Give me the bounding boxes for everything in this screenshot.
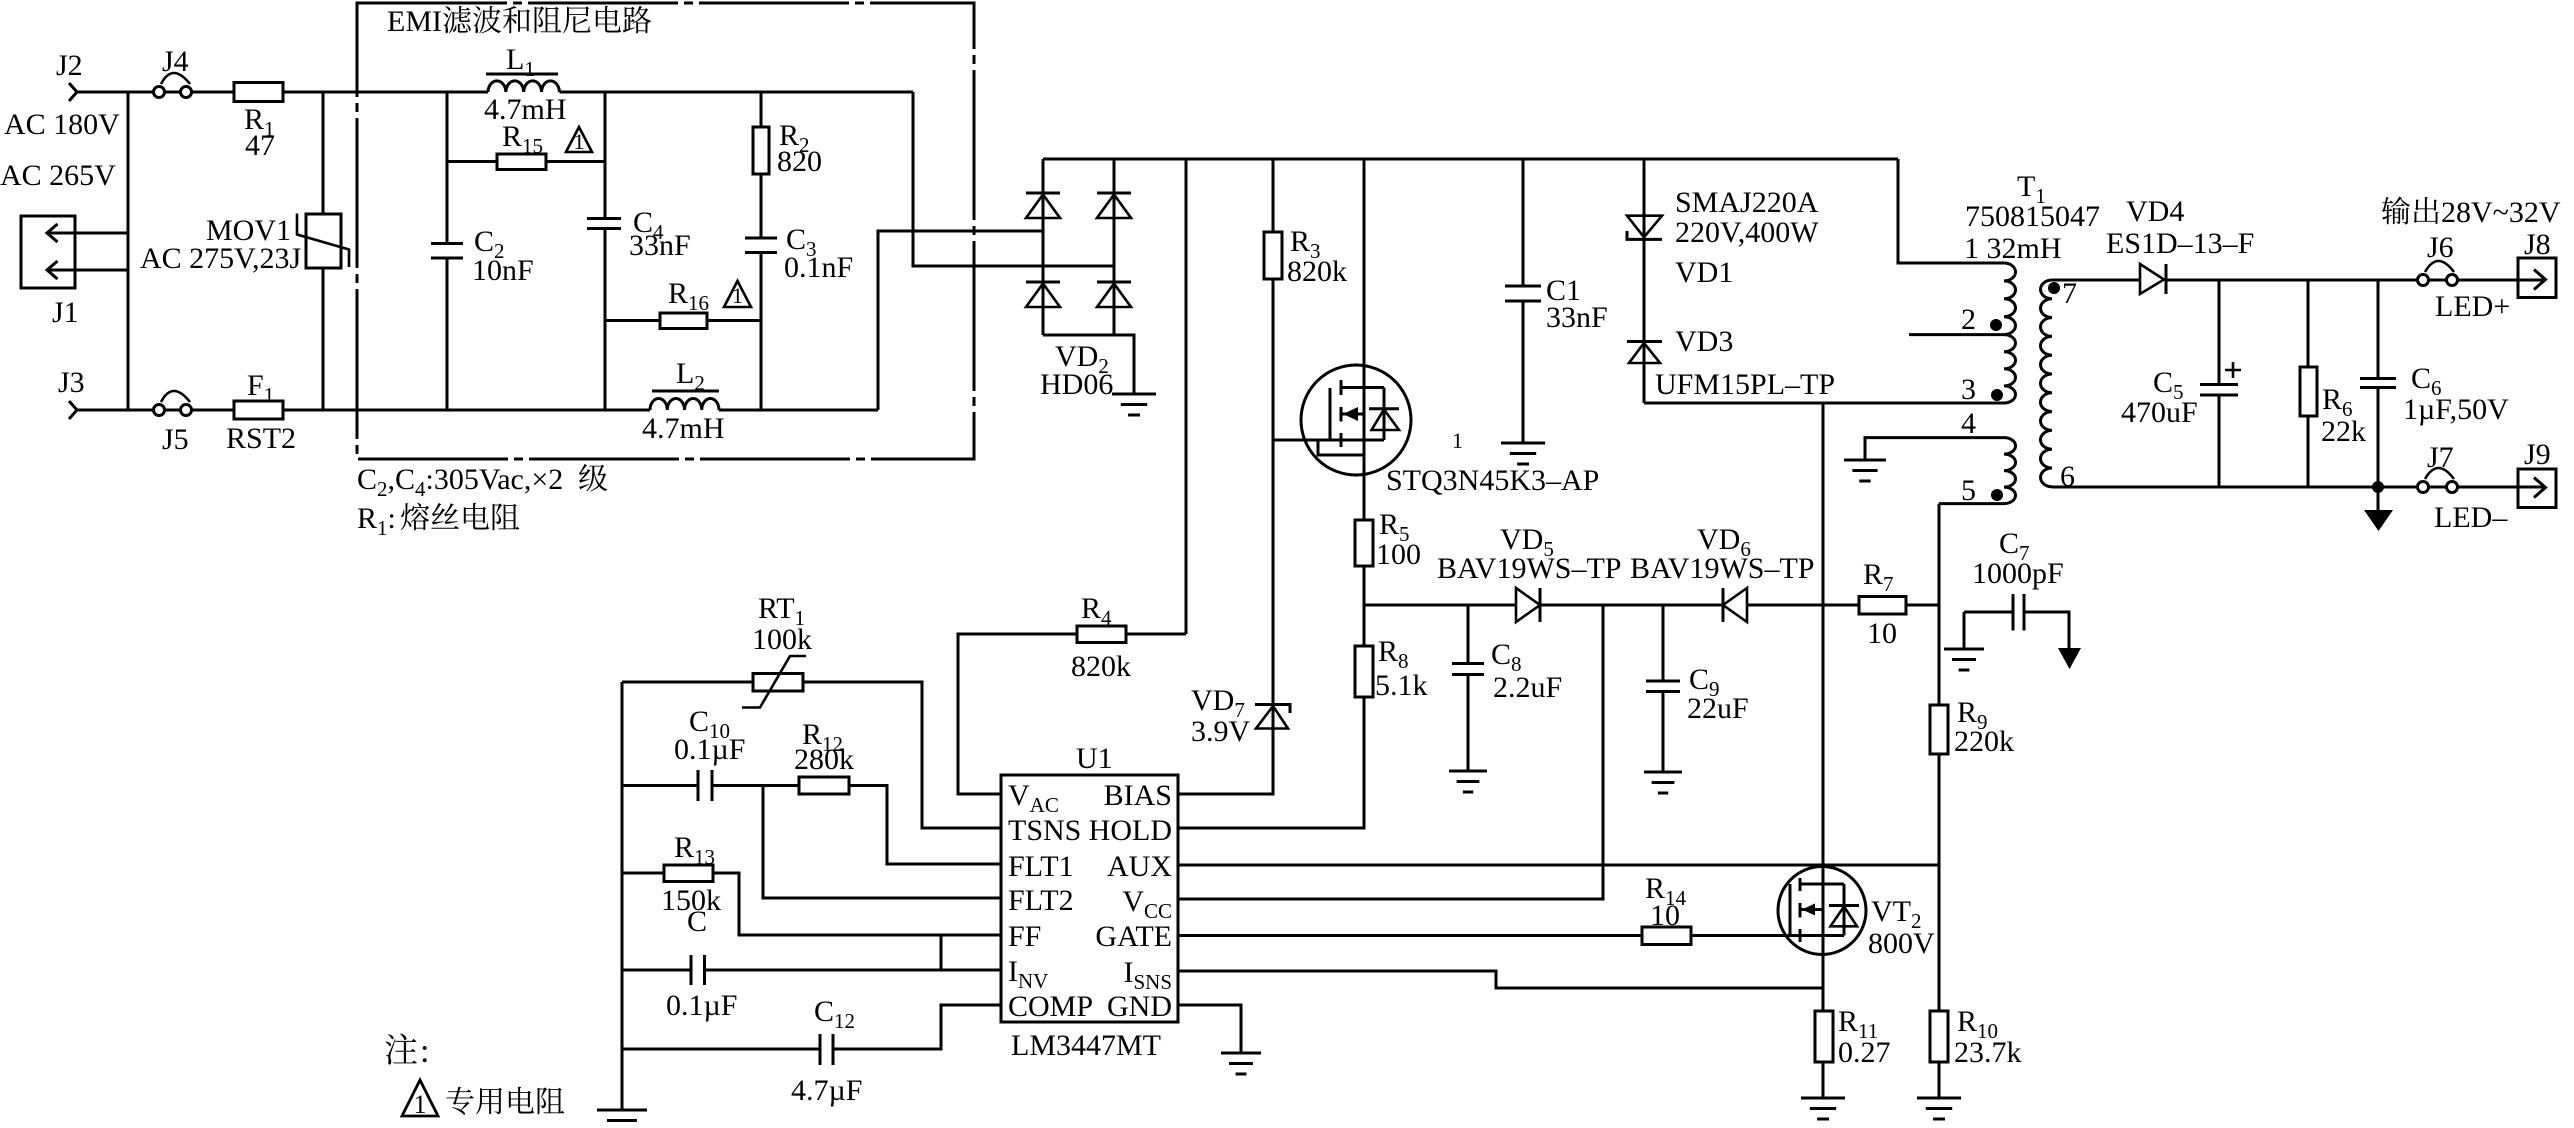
- ground R11: [1801, 1098, 1845, 1119]
- bridge diode VD2a: [1026, 192, 1060, 195]
- svg-text:100: 100: [1376, 538, 1421, 571]
- svg-text:J8: J8: [2524, 228, 2551, 261]
- jumper J6 arc: [2425, 261, 2454, 272]
- resistor R16: [660, 313, 707, 329]
- wire U1 GND: [1178, 1005, 1241, 1053]
- connector J9 box: [2518, 469, 2556, 508]
- wire C1 top: [1522, 159, 1525, 286]
- jumper J5 right contact: [181, 405, 192, 416]
- svg-text:U1: U1: [1076, 742, 1113, 775]
- phase dot pin2: [1992, 321, 2001, 330]
- note mark Chinese 注: [385, 1034, 416, 1065]
- wire R4 feed vertical: [1185, 159, 1188, 634]
- wire secondary top: [2052, 279, 2140, 282]
- inductor L1 coil: [488, 81, 559, 92]
- wire C3 bottom: [760, 253, 763, 411]
- svg-text:10nF: 10nF: [472, 254, 534, 287]
- jumper J5 arc: [161, 391, 190, 402]
- phase dot pin5: [1993, 491, 2002, 500]
- wire R8 to HOLD: [1178, 697, 1364, 828]
- connector J1 box: [21, 216, 75, 288]
- varistor MOV1 strike: [297, 214, 349, 268]
- capacitor C6: [2360, 379, 2396, 388]
- svg-text:28V~32V: 28V~32V: [2441, 196, 2561, 229]
- varistor MOV1 body: [306, 214, 341, 268]
- earth arrow C7: [2058, 648, 2081, 669]
- capacitor C5 470uF electrolytic: [2200, 385, 2238, 396]
- resistor R1: [234, 83, 283, 102]
- wire R4 left: [1126, 633, 1186, 636]
- wire VT1 gate: [1273, 439, 1330, 442]
- svg-text:AC 265V: AC 265V: [0, 159, 116, 192]
- svg-text:BAV19WS–TP: BAV19WS–TP: [1630, 552, 1814, 585]
- svg-text:2.2uF: 2.2uF: [1493, 671, 1562, 704]
- resistor R13: [664, 865, 713, 882]
- svg-text:800V: 800V: [1868, 927, 1935, 960]
- wire N line to bridge: [878, 231, 1043, 410]
- svg-text:4: 4: [1961, 407, 1976, 440]
- wire C12 right: [833, 1005, 1001, 1049]
- special resistor mark for R16: [724, 281, 751, 307]
- wire R3 to VD7 to BIAS: [1178, 279, 1273, 794]
- TVS diode VD1 SMAJ220A: [1627, 216, 1662, 238]
- capacitor C9: [1646, 681, 1680, 692]
- capacitor C10: [698, 770, 712, 801]
- svg-text:2: 2: [1961, 303, 1976, 336]
- resistor R9: [1930, 705, 1948, 754]
- svg-text::: :: [420, 1033, 429, 1070]
- ground R10: [1917, 1098, 1961, 1119]
- wire R14 to VT2 gate: [1691, 934, 1844, 937]
- svg-text:820k: 820k: [1287, 255, 1347, 288]
- svg-text:1: 1: [1452, 428, 1463, 453]
- svg-text:R1:: R1:: [357, 502, 396, 540]
- resistor R12: [799, 777, 849, 794]
- svg-text:FLT1: FLT1: [1008, 850, 1074, 883]
- svg-text:820k: 820k: [1071, 650, 1131, 683]
- ground C7: [1944, 649, 1984, 670]
- resistor R14: [1642, 927, 1691, 945]
- thermistor RT1: [753, 674, 803, 692]
- svg-text:GATE: GATE: [1095, 920, 1172, 953]
- wire AUX line: [1178, 864, 1939, 867]
- wire C9 bottom: [1662, 692, 1665, 773]
- wire C10 left: [622, 784, 698, 787]
- wire left rail: [621, 682, 624, 1110]
- svg-text:UFM15PL–TP: UFM15PL–TP: [1655, 368, 1835, 401]
- svg-text:FLT2: FLT2: [1008, 884, 1074, 917]
- svg-text:J1: J1: [52, 296, 79, 329]
- svg-text:LED+: LED+: [2435, 290, 2510, 323]
- svg-text:J6: J6: [2427, 231, 2454, 264]
- svg-text:COMP: COMP: [1008, 990, 1093, 1023]
- wire R12 right to FLT1: [849, 786, 1001, 865]
- svg-text:VD1: VD1: [1675, 256, 1733, 289]
- svg-text:SMAJ220A: SMAJ220A: [1675, 186, 1819, 219]
- wire FLT2 tap: [763, 786, 1001, 899]
- svg-text:HOLD: HOLD: [1089, 814, 1172, 847]
- earth arrow output: [2364, 510, 2393, 531]
- junction dot LED- rail: [2374, 483, 2383, 492]
- capacitor C7 1000pF: [2013, 594, 2024, 631]
- inductor L2 bar: [652, 390, 719, 393]
- svg-text:23.7k: 23.7k: [1954, 1036, 2022, 1069]
- capacitor C1: [1505, 286, 1541, 301]
- wire top AC line: [77, 91, 913, 94]
- svg-text:7: 7: [2062, 277, 2077, 310]
- wire VT1 drain: [1363, 159, 1366, 520]
- ground C1: [1501, 443, 1545, 464]
- svg-text:1000pF: 1000pF: [1972, 557, 2064, 590]
- svg-text:EMI: EMI: [387, 5, 442, 38]
- zener diode VD7 3.9V: [1255, 705, 1290, 714]
- wire bridge bottom rail: [1043, 335, 1134, 394]
- wire VD1 VD3 vertical: [1643, 159, 1646, 403]
- wire R6 top: [2307, 280, 2310, 367]
- wire C9 top: [1662, 605, 1665, 681]
- diode VD4 ES1D-13-F: [2140, 264, 2164, 294]
- svg-text:J5: J5: [162, 423, 189, 456]
- connector J2 arrow: [69, 83, 77, 101]
- fuse F1: [234, 401, 283, 419]
- wire GATE to R14: [1178, 934, 1642, 937]
- svg-text:TSNS: TSNS: [1008, 814, 1081, 847]
- transformer T1 primary winding 1-2: [2004, 263, 2016, 335]
- connector J9 arrow: [2534, 478, 2546, 498]
- diode VD3 UFM15PL-TP: [1627, 340, 1662, 343]
- wire ISNS line: [1178, 971, 1823, 988]
- transformer T1 aux winding 4-5: [2004, 438, 2016, 504]
- jumper J7 right contact: [2447, 482, 2458, 493]
- transistor VT2 internals: [1789, 884, 1792, 936]
- jumper J4 right contact: [181, 87, 192, 98]
- diode VD5 BAV19WS-TP: [1516, 588, 1540, 622]
- ground C8: [1449, 771, 1487, 792]
- bridge diode VD2b: [1097, 192, 1131, 195]
- ground bridge: [1112, 394, 1156, 415]
- op-amp U1 LM3447MT box: [1001, 775, 1178, 1022]
- note grade 级: [579, 464, 607, 491]
- diode VD6 BAV19WS-TP: [1722, 588, 1725, 622]
- wire T1 pin1 feed: [1898, 159, 2004, 263]
- svg-text:J3: J3: [58, 366, 85, 399]
- svg-text:1: 1: [574, 129, 585, 154]
- svg-text:470uF: 470uF: [2121, 396, 2198, 429]
- wire R8 top: [1363, 605, 1366, 646]
- phase dot pin7: [2050, 284, 2059, 293]
- wire J1 pin2: [47, 269, 128, 272]
- resistor R3: [1264, 232, 1282, 279]
- bridge diode VD2d: [1097, 281, 1131, 284]
- wire bridge left column: [1042, 159, 1045, 335]
- wire L line to bridge: [913, 92, 1114, 266]
- wire R15 left: [447, 160, 497, 163]
- resistor R11: [1815, 1011, 1833, 1062]
- special resistor mark for R15: [566, 127, 592, 152]
- svg-text:BAV19WS–TP: BAV19WS–TP: [1437, 552, 1621, 585]
- wire RT1 right to TSNS: [803, 682, 1001, 828]
- wire T1 pin2 stub: [1909, 333, 2004, 336]
- connector J3 arrow: [69, 401, 77, 419]
- wire J1 branch vertical: [127, 92, 130, 410]
- transistor VT2 body circle: [1778, 867, 1866, 955]
- thermistor RT1 strike: [742, 656, 806, 708]
- wire R6 bottom: [2307, 416, 2310, 487]
- svg-text:33nF: 33nF: [1546, 301, 1608, 334]
- svg-text:LM3447MT: LM3447MT: [1011, 1029, 1161, 1062]
- svg-text:BIAS: BIAS: [1104, 779, 1172, 812]
- wire C right to INV: [705, 969, 1002, 972]
- wire C6 top: [2377, 280, 2380, 379]
- svg-text:4.7mH: 4.7mH: [642, 412, 725, 445]
- wire C2 bottom: [446, 258, 449, 410]
- wire R3 top: [1272, 159, 1275, 232]
- ground U1: [1221, 1053, 1261, 1074]
- svg-text:VD4: VD4: [2126, 195, 2184, 228]
- wire R2 to C3: [760, 174, 763, 238]
- note R1 Chinese 熔丝电阻: [401, 503, 520, 531]
- svg-text:GND: GND: [1107, 990, 1172, 1023]
- wire C2 top: [446, 92, 449, 244]
- svg-text:AC 275V,23J: AC 275V,23J: [140, 242, 301, 275]
- note special resistor Chinese 专用电阻: [446, 1087, 564, 1115]
- wire C8 top: [1467, 605, 1470, 664]
- svg-text:AC 180V: AC 180V: [4, 108, 120, 141]
- inductor L2 coil: [650, 398, 719, 410]
- capacitor C3: [745, 238, 777, 253]
- wire R13 left: [622, 872, 664, 875]
- svg-text:0.1µF: 0.1µF: [666, 989, 737, 1022]
- wire R10 to ground: [1938, 1062, 1941, 1098]
- note warning triangle: [402, 1080, 438, 1116]
- resistor R10: [1930, 1011, 1948, 1062]
- transistor VT1 body circle: [1301, 365, 1411, 475]
- svg-text:0.1nF: 0.1nF: [784, 251, 853, 284]
- svg-text:3: 3: [1961, 373, 1976, 406]
- jumper J5 left contact: [154, 405, 165, 416]
- capacitor C12: [820, 1034, 833, 1065]
- wire T1 pin5: [1939, 502, 2004, 505]
- wire R13 right to FF: [713, 873, 1001, 935]
- wire C1 bottom: [1522, 301, 1525, 443]
- resistor R5: [1355, 520, 1373, 566]
- svg-text:1: 1: [414, 1090, 427, 1119]
- wire C7 left: [1964, 612, 2013, 649]
- ground C9: [1644, 772, 1682, 793]
- svg-text:VD3: VD3: [1675, 325, 1733, 358]
- wire earth stem: [2377, 489, 2380, 510]
- svg-text:5.1k: 5.1k: [1375, 669, 1428, 702]
- jumper J6 left contact: [2418, 275, 2429, 286]
- wire R4 to VAC: [958, 634, 1077, 794]
- resistor R8: [1355, 646, 1373, 697]
- svg-text:10: 10: [1650, 899, 1680, 932]
- connector J1 arrow 1: [47, 224, 58, 242]
- wire VCC tap: [1178, 605, 1603, 899]
- svg-text:1 32mH: 1 32mH: [1964, 232, 2062, 265]
- wire MOV1 bottom: [322, 268, 325, 410]
- label output Chinese 输出: [2382, 197, 2439, 225]
- wire C8 bottom: [1467, 675, 1470, 772]
- wire C6 bottom: [2377, 388, 2380, 488]
- wire R5 bottom: [1363, 566, 1366, 605]
- phase dot pin3: [1993, 391, 2002, 400]
- wire R16 right: [707, 319, 761, 322]
- svg-text:HD06: HD06: [1040, 368, 1113, 401]
- ground T1 pin4: [1844, 460, 1886, 481]
- wire C10 to R12: [712, 784, 799, 787]
- wire J1 pin1: [47, 232, 128, 235]
- capacitor C: [691, 955, 705, 985]
- resistor R7: [1859, 597, 1906, 615]
- svg-text:0.1µF: 0.1µF: [674, 733, 745, 766]
- wire R9 to R10: [1938, 754, 1941, 1011]
- inductor L1 bar: [486, 73, 558, 76]
- jumper J7 left contact: [2418, 482, 2429, 493]
- svg-text:J2: J2: [56, 49, 83, 82]
- jumper J7 arc: [2425, 468, 2454, 479]
- wire T1 pin4 to ground: [1865, 438, 2004, 460]
- wire bottom AC line: [77, 409, 878, 412]
- svg-text:820: 820: [777, 145, 822, 178]
- wire bridge top rail: [1043, 158, 1898, 161]
- svg-text:100k: 100k: [752, 623, 812, 656]
- svg-text:LED–: LED–: [2434, 501, 2508, 534]
- wire C7 right: [2024, 612, 2069, 649]
- wire C5 top: [2218, 280, 2221, 385]
- svg-text:J9: J9: [2524, 438, 2551, 471]
- wire mid rail right: [1747, 604, 1859, 607]
- resistor R6: [2300, 367, 2317, 416]
- wire drain line VT2: [1822, 403, 1825, 1011]
- resistor R4: [1077, 626, 1126, 643]
- svg-text:47: 47: [245, 129, 275, 162]
- wire R7 right: [1906, 604, 1939, 607]
- wire RT1 left: [622, 681, 753, 684]
- wire output plus rail: [2166, 279, 2543, 282]
- wire FF INV tie: [940, 935, 943, 970]
- svg-text:33nF: 33nF: [629, 229, 691, 262]
- transistor VT1 internals: [1329, 388, 1332, 441]
- wire R15 right: [546, 160, 605, 163]
- connector J1 arrow 2: [47, 261, 58, 279]
- svg-text:0.27: 0.27: [1838, 1036, 1891, 1069]
- svg-text:10: 10: [1867, 617, 1897, 650]
- label EMI filter Chinese 滤波和阻尼电路: [443, 6, 651, 34]
- svg-text:280k: 280k: [794, 743, 854, 776]
- wire MOV1 top: [322, 92, 325, 214]
- resistor R15: [497, 154, 546, 170]
- resistor R2: [753, 127, 769, 174]
- svg-text:4.7mH: 4.7mH: [484, 93, 567, 126]
- svg-text:STQ3N45K3–AP: STQ3N45K3–AP: [1386, 464, 1599, 497]
- svg-text:22k: 22k: [2321, 415, 2366, 448]
- wire aux feed vertical: [1938, 504, 1941, 705]
- wire C4 branch bottom: [604, 229, 607, 411]
- svg-text:750815047: 750815047: [1965, 200, 2100, 233]
- wire secondary bottom rail: [2052, 486, 2543, 489]
- wire R16 left: [605, 319, 660, 322]
- ground left rail: [597, 1110, 647, 1128]
- wire UFM to T1 pin3: [1644, 402, 2004, 405]
- wire R11 to ground: [1822, 1062, 1825, 1098]
- svg-text:C2,C4:305Vac,×2: C2,C4:305Vac,×2: [357, 463, 563, 501]
- EMI filter dash-dot box: [357, 3, 974, 459]
- connector J8 arrow: [2534, 270, 2546, 290]
- transformer T1 secondary winding 7-6: [2041, 280, 2053, 487]
- svg-text:220V,400W: 220V,400W: [1675, 216, 1819, 249]
- wire mid rail left: [1364, 604, 1516, 607]
- wire C5 bottom: [2218, 395, 2221, 487]
- wire C4 branch top: [604, 92, 607, 219]
- svg-text:22uF: 22uF: [1687, 692, 1749, 725]
- svg-text:RST2: RST2: [226, 422, 296, 455]
- svg-text:ES1D–13–F: ES1D–13–F: [2106, 227, 2254, 260]
- wire R2 top: [760, 92, 763, 127]
- wire C left: [622, 969, 691, 972]
- svg-text:3.9V: 3.9V: [1191, 715, 1251, 748]
- jumper J4 arc: [161, 73, 190, 84]
- connector J8 box: [2518, 258, 2556, 298]
- svg-text:C: C: [687, 905, 707, 938]
- svg-text:1: 1: [732, 283, 743, 308]
- svg-text:1µF,50V: 1µF,50V: [2403, 393, 2509, 426]
- transformer T1 primary winding 2-3: [2004, 335, 2016, 403]
- svg-text:220k: 220k: [1954, 725, 2014, 758]
- svg-text:AUX: AUX: [1107, 850, 1172, 883]
- wire C12 left: [622, 1048, 820, 1051]
- capacitor C8: [1452, 664, 1484, 675]
- capacitor C2: [431, 244, 463, 259]
- wire mid rail center: [1540, 604, 1723, 607]
- svg-text:5: 5: [1961, 474, 1976, 507]
- wire bridge right column: [1113, 159, 1116, 335]
- capacitor C4: [587, 219, 621, 229]
- svg-text:4.7µF: 4.7µF: [791, 1074, 862, 1107]
- jumper J6 right contact: [2447, 275, 2458, 286]
- svg-text:FF: FF: [1008, 920, 1041, 953]
- bridge diode VD2c: [1026, 281, 1060, 284]
- jumper J4 left contact: [154, 87, 165, 98]
